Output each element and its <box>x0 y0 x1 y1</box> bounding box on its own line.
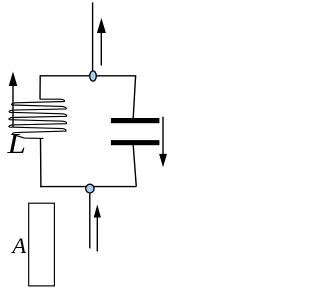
svg-text:A: A <box>10 233 26 258</box>
svg-text:L: L <box>6 129 26 160</box>
